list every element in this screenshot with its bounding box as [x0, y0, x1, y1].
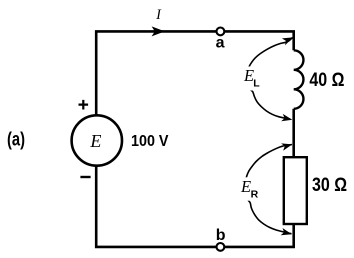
ER voltage arc: [245, 145, 292, 234]
minus sign: [80, 176, 90, 178]
wire top: from left corner to right corner: [96, 31, 294, 115]
current arrow I head: [152, 26, 165, 36]
node a: [217, 28, 225, 36]
wire right middle: between inductor and resistor: [292, 109, 295, 157]
label ER background gap: [240, 177, 259, 200]
svg-text:b: b: [216, 227, 226, 244]
svg-text:I: I: [155, 7, 162, 23]
svg-text:L: L: [253, 78, 260, 90]
EL arc bottom arrowhead: [281, 114, 292, 121]
inductor L 40 ohm coil: [294, 50, 304, 109]
svg-text:40 Ω: 40 Ω: [309, 69, 344, 91]
svg-text:(a): (a): [7, 129, 25, 150]
node b: [217, 243, 225, 251]
EL voltage arc: [247, 38, 292, 120]
svg-text:E: E: [240, 177, 251, 196]
ER arc bottom arrowhead: [281, 228, 292, 235]
svg-text:100 V: 100 V: [131, 133, 169, 150]
voltage source E: [72, 115, 122, 165]
svg-text:30 Ω: 30 Ω: [312, 174, 347, 196]
svg-text:E: E: [89, 131, 101, 151]
svg-text:a: a: [216, 34, 225, 51]
svg-text:R: R: [251, 189, 259, 201]
ER arc top arrowhead: [281, 143, 292, 150]
wire bottom: left vertical below source, bottom run, right riser below resistor: [96, 166, 294, 247]
resistor R 30 ohm body: [284, 157, 307, 224]
label EL background gap: [242, 67, 260, 91]
EL arc top arrowhead: [282, 37, 293, 45]
plus sign: [79, 100, 89, 110]
